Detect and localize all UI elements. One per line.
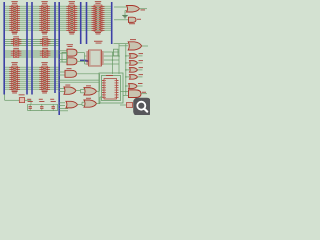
gate G4 (OR) xyxy=(64,85,76,95)
wire: bottom left loop xyxy=(5,95,31,105)
gate G6 (OR) xyxy=(66,101,78,108)
gate R5 (big AND bottom right) xyxy=(120,90,147,98)
wire: band A horizontal data rows xyxy=(4,6,112,30)
bus B6 xyxy=(80,2,82,44)
IC U1 xyxy=(9,1,20,34)
bus B5 xyxy=(58,2,60,115)
IC U4 xyxy=(92,1,105,34)
gate G2 (AND) xyxy=(67,58,77,65)
gate Rd (buffer) xyxy=(126,74,143,79)
wire: right vertical distribution xyxy=(125,44,127,95)
IC U9 (DIP) xyxy=(86,41,103,66)
bus B1 xyxy=(3,2,5,95)
bus stub into U9 xyxy=(80,60,89,62)
bus B8 xyxy=(111,2,113,44)
wire: gate cluster interconnects xyxy=(76,74,103,106)
bus B2 xyxy=(26,2,28,95)
gate Rc (buffer) xyxy=(126,67,143,72)
wire: routing loop left of gates xyxy=(62,52,67,62)
gate G1 (AND) xyxy=(67,44,78,56)
gate Ra (buffer) xyxy=(126,53,143,58)
gate Rb (buffer) xyxy=(126,60,143,65)
gate Re (buffer) xyxy=(126,83,143,89)
bus B7 xyxy=(86,2,88,44)
gate G8 (OR) xyxy=(84,98,97,107)
IC U11 xyxy=(39,62,50,93)
wire: inputs to gates G1 G2 from bus B5 xyxy=(59,51,67,62)
component X1 (crystal) xyxy=(19,94,25,102)
gate R0 (big OR) xyxy=(114,39,149,50)
IC U5 xyxy=(11,36,22,46)
wire: band C horizontal data rows xyxy=(4,67,59,89)
gate G7 (OR) xyxy=(84,85,97,95)
wire: band B row2 data lines xyxy=(4,51,59,57)
schematic background xyxy=(0,0,150,115)
IC U6 xyxy=(40,36,51,46)
gate G3 (AND) xyxy=(65,68,77,77)
wire: inputs to band C gates from bus B5 xyxy=(59,72,99,111)
bus B3 xyxy=(31,2,33,95)
wire: small loop right of U9 xyxy=(114,49,119,56)
IC U12 (DIP) xyxy=(102,75,119,99)
wire: routing loops around U12 xyxy=(99,73,123,103)
IC U2 xyxy=(39,1,50,34)
wire: band B row1 data lines xyxy=(4,40,59,46)
zoom button overlay xyxy=(133,98,151,116)
ground symbol xyxy=(122,15,127,18)
IC U8 xyxy=(40,48,51,58)
wire: G1 G2 outputs to U9 xyxy=(77,53,89,64)
IC U3 xyxy=(66,1,77,34)
capacitor ladder C1 C2 C3 xyxy=(27,99,57,111)
bus B4 xyxy=(54,2,56,93)
gate T2 (small, top right) xyxy=(114,17,141,24)
IC U10 xyxy=(9,62,20,93)
gate T1 (OR, top right) xyxy=(114,6,147,16)
wire: U9 right pin wires xyxy=(104,44,120,74)
IC U7 xyxy=(11,48,22,58)
component X2 (small, near button) xyxy=(120,103,133,108)
